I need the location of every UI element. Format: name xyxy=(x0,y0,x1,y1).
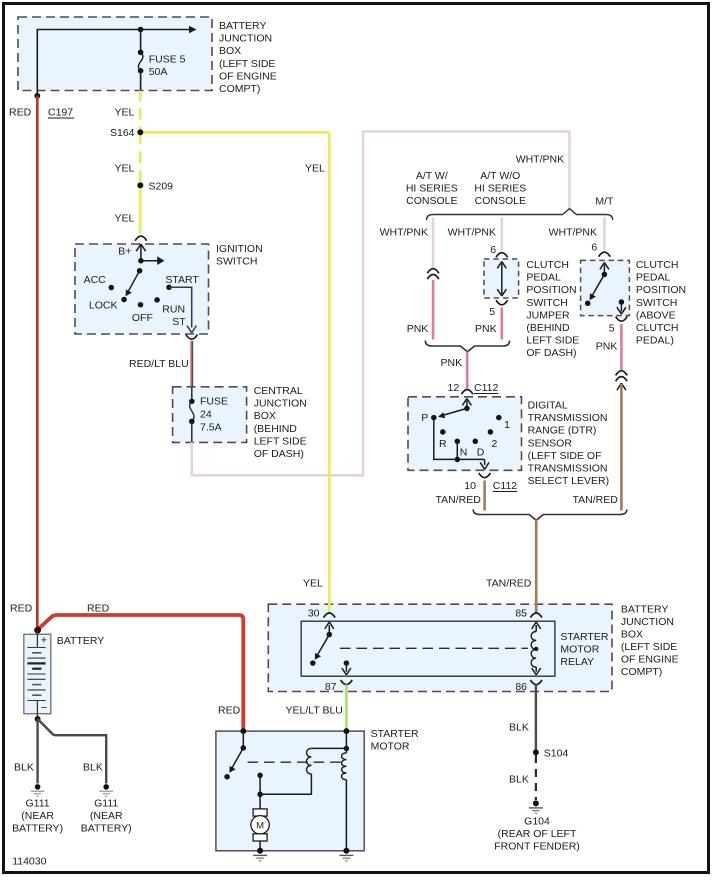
svg-text:PNK: PNK xyxy=(596,341,618,353)
svg-text:2: 2 xyxy=(492,438,498,450)
svg-text:85: 85 xyxy=(515,607,527,619)
node B+ xyxy=(138,258,144,264)
svg-text:114030: 114030 xyxy=(12,856,46,868)
wire TAN/RED into pin 85 xyxy=(535,603,538,613)
wire YEL dashed S164 to S209 xyxy=(139,132,142,185)
svg-text:RANGE (DTR): RANGE (DTR) xyxy=(528,425,597,437)
svg-text:IGNITION: IGNITION xyxy=(216,243,263,255)
connector entry B+ arc xyxy=(135,236,147,241)
node battery negative xyxy=(35,716,41,722)
wire BLK battery ground 2 xyxy=(38,719,107,784)
svg-text:WHT/PNK: WHT/PNK xyxy=(380,227,428,239)
svg-text:YEL: YEL xyxy=(303,578,323,590)
clutch pedal position switch box xyxy=(581,260,630,315)
svg-text:START: START xyxy=(165,274,199,286)
svg-text:A/T W/: A/T W/ xyxy=(416,170,448,182)
svg-text:C197: C197 xyxy=(48,107,73,119)
svg-text:1: 1 xyxy=(504,419,510,431)
svg-text:CONSOLE: CONSOLE xyxy=(475,195,526,207)
svg-text:ST: ST xyxy=(172,316,186,328)
svg-text:MOTOR: MOTOR xyxy=(560,643,599,655)
svg-text:(ABOVE: (ABOVE xyxy=(636,309,676,321)
svg-text:+: + xyxy=(41,635,47,647)
svg-text:OF DASH): OF DASH) xyxy=(254,448,304,460)
wire WHT/PNK CJB to top right xyxy=(192,132,570,476)
svg-text:COMPT): COMPT) xyxy=(621,666,662,678)
svg-text:RUN: RUN xyxy=(162,304,185,316)
svg-text:BLK: BLK xyxy=(509,722,529,734)
contact LOCK xyxy=(121,297,127,303)
svg-text:PEDAL): PEDAL) xyxy=(636,335,674,347)
contact R xyxy=(439,429,447,450)
label G111 b xyxy=(81,798,132,835)
svg-text:ACC: ACC xyxy=(84,274,107,286)
svg-text:SWITCH: SWITCH xyxy=(636,297,677,309)
svg-text:BATTERY): BATTERY) xyxy=(12,823,63,835)
svg-text:YEL/LT BLU: YEL/LT BLU xyxy=(286,705,343,717)
svg-text:BLK: BLK xyxy=(14,762,34,774)
motor M1 xyxy=(251,794,269,851)
brace top options xyxy=(427,209,613,220)
label clutch pedal position switch xyxy=(636,259,686,347)
label battery junction box 2 xyxy=(621,604,679,679)
svg-text:BOX: BOX xyxy=(219,45,241,57)
splice S164 dot overlay xyxy=(137,129,143,135)
contact 2 xyxy=(488,429,498,450)
label A/T W/ HI SERIES CONSOLE xyxy=(406,170,458,207)
svg-text:M: M xyxy=(256,820,264,831)
connector arc jumper top xyxy=(496,253,508,258)
svg-text:OF DASH): OF DASH) xyxy=(526,347,576,359)
svg-text:PNK: PNK xyxy=(441,357,463,369)
wire hold-in coil to ground xyxy=(345,780,347,851)
battery junction box 1 xyxy=(18,17,212,91)
svg-text:RELAY: RELAY xyxy=(560,656,594,668)
clutch pedal position switch jumper box xyxy=(484,259,519,298)
svg-text:JUNCTION: JUNCTION xyxy=(621,616,674,628)
clutch switch output contact xyxy=(617,299,626,314)
svg-text:A/T W/O: A/T W/O xyxy=(480,170,520,182)
svg-text:MOTOR: MOTOR xyxy=(371,740,410,752)
label A/T W/O HI SERIES CONSOLE xyxy=(474,170,526,207)
wire RED thick battery to relay feed xyxy=(38,615,244,730)
svg-text:M/T: M/T xyxy=(595,196,614,208)
clutch switch lever xyxy=(585,272,607,306)
wire PNK to C112 xyxy=(466,352,469,389)
pin 86 xyxy=(515,667,542,693)
svg-text:CENTRAL: CENTRAL xyxy=(254,385,303,397)
svg-text:PEDAL: PEDAL xyxy=(636,272,671,284)
svg-text:YEL: YEL xyxy=(305,163,325,175)
svg-text:JUNCTION: JUNCTION xyxy=(254,398,307,410)
wire TAN/RED from DTR xyxy=(483,481,486,511)
svg-text:(REAR OF LEFT: (REAR OF LEFT xyxy=(498,828,577,840)
splice S104 xyxy=(533,748,569,760)
contact D xyxy=(473,439,485,459)
svg-text:(NEAR: (NEAR xyxy=(21,810,54,822)
svg-text:SWITCH: SWITCH xyxy=(526,297,567,309)
svg-text:YEL: YEL xyxy=(115,107,135,119)
svg-text:HI SERIES: HI SERIES xyxy=(406,183,458,195)
splice S164 xyxy=(110,127,143,139)
svg-text:FRONT FENDER): FRONT FENDER) xyxy=(494,841,580,853)
svg-text:YEL: YEL xyxy=(115,213,135,225)
ground starter motor b xyxy=(339,848,353,861)
svg-text:6: 6 xyxy=(490,244,496,256)
svg-text:SWITCH: SWITCH xyxy=(216,256,257,268)
wire YEL dashed fuse to S164 xyxy=(139,91,142,133)
svg-text:JUMPER: JUMPER xyxy=(526,309,570,321)
svg-text:G111: G111 xyxy=(26,798,50,810)
connector arc jumper bottom xyxy=(496,300,508,305)
wire PNK branch1 xyxy=(432,280,435,340)
svg-text:24: 24 xyxy=(200,409,212,421)
svg-text:COMPT): COMPT) xyxy=(219,83,260,95)
wire YEL overlay at crossing xyxy=(328,467,331,483)
svg-text:OF ENGINE: OF ENGINE xyxy=(219,70,277,82)
svg-text:(BEHIND: (BEHIND xyxy=(254,423,298,435)
svg-text:PNK: PNK xyxy=(475,323,497,335)
splice S209 dot overlay xyxy=(137,182,143,188)
connector C197 xyxy=(48,107,74,119)
svg-text:50A: 50A xyxy=(149,66,168,78)
svg-text:WHT/PNK: WHT/PNK xyxy=(516,154,564,166)
starter link dashed xyxy=(248,761,346,763)
svg-text:YEL: YEL xyxy=(115,163,135,175)
relay switch lever xyxy=(310,632,332,666)
svg-text:HI SERIES: HI SERIES xyxy=(474,183,526,195)
wire coil top link xyxy=(311,747,346,749)
wire RED battery feed xyxy=(36,96,39,630)
node starter green input xyxy=(343,728,349,734)
svg-text:(LEFT SIDE: (LEFT SIDE xyxy=(621,641,677,653)
solenoid switch starter xyxy=(224,731,246,779)
DTR exit arrow xyxy=(480,459,489,469)
brace TAN/RED combine xyxy=(473,510,627,521)
label clutch pedal position switch jumper xyxy=(526,259,579,359)
node coil link xyxy=(534,647,538,651)
svg-text:PEDAL: PEDAL xyxy=(526,272,561,284)
wire YEL right vertical to relay xyxy=(328,132,331,613)
fuse F24 7.5A xyxy=(189,388,228,443)
wire bjb1 internal feed xyxy=(37,26,196,96)
node junction bjb1 xyxy=(138,27,144,33)
svg-text:BLK: BLK xyxy=(83,762,103,774)
wire RED/LT BLU ignition to CJB xyxy=(191,341,192,388)
contact 1 xyxy=(496,415,510,431)
contact OFF xyxy=(138,302,144,308)
svg-text:−: − xyxy=(41,702,47,714)
svg-text:S164: S164 xyxy=(110,127,135,139)
svg-text:LEFT SIDE: LEFT SIDE xyxy=(254,435,307,447)
ground G111 a xyxy=(31,784,45,796)
wire N tap xyxy=(456,441,458,459)
relay coil xyxy=(531,632,536,668)
contact RUN xyxy=(154,297,160,303)
svg-text:STARTER: STARTER xyxy=(560,631,608,643)
svg-text:POSITION: POSITION xyxy=(636,284,686,296)
pin 85 xyxy=(515,607,542,631)
svg-text:BOX: BOX xyxy=(621,629,643,641)
contact ACC xyxy=(109,285,115,291)
svg-text:S104: S104 xyxy=(544,748,569,760)
svg-text:POSITION: POSITION xyxy=(526,284,576,296)
wire TAN/RED to relay xyxy=(535,520,538,604)
wire P to output xyxy=(434,418,485,460)
svg-text:C112: C112 xyxy=(493,480,517,492)
pin 30 xyxy=(308,607,335,634)
svg-text:TRANSMISSION: TRANSMISSION xyxy=(528,412,608,424)
battery xyxy=(24,630,51,719)
svg-text:TAN/RED: TAN/RED xyxy=(573,494,619,506)
wire WHT/PNK branch 2 xyxy=(500,218,503,252)
svg-text:CONSOLE: CONSOLE xyxy=(406,195,457,207)
svg-text:5: 5 xyxy=(609,323,615,335)
connector C112 top xyxy=(461,382,498,394)
wire pull-in coil bottom link xyxy=(260,774,311,794)
label DTR sensor xyxy=(528,400,610,488)
svg-text:86: 86 xyxy=(515,681,527,693)
inline connector branch1 xyxy=(427,269,439,279)
svg-text:LOCK: LOCK xyxy=(89,300,118,312)
wire green input down xyxy=(345,731,347,753)
node C197 junction dot xyxy=(34,93,40,99)
fuse F5 50A xyxy=(138,30,186,91)
wire WHT/PNK branch 3 xyxy=(603,218,606,251)
svg-text:OF ENGINE: OF ENGINE xyxy=(621,654,679,666)
DTR entry arrow xyxy=(462,399,471,409)
battery junction box 2 xyxy=(268,604,612,691)
label G111 a xyxy=(12,798,63,835)
svg-text:BLK: BLK xyxy=(509,774,529,786)
node battery positive xyxy=(34,627,41,634)
connector C112 bottom xyxy=(464,473,517,492)
svg-text:BOX: BOX xyxy=(254,410,276,422)
starter contact node xyxy=(257,773,263,779)
svg-text:RED: RED xyxy=(87,602,110,614)
starter motor relay box xyxy=(301,621,555,676)
svg-text:RED: RED xyxy=(218,705,241,717)
label ignition switch xyxy=(216,243,263,268)
brace PNK combine xyxy=(425,341,509,352)
svg-text:OFF: OFF xyxy=(132,312,153,324)
wire BLK battery ground 1 xyxy=(36,719,38,784)
svg-text:FUSE 5: FUSE 5 xyxy=(149,54,186,66)
node N junction xyxy=(455,457,461,463)
label battery junction box 1 xyxy=(219,20,277,95)
svg-text:BATTERY: BATTERY xyxy=(57,635,104,647)
connector arc clutch switch top xyxy=(599,252,611,257)
wire TAN/RED branch3 xyxy=(620,384,623,511)
svg-text:SENSOR: SENSOR xyxy=(528,437,573,449)
svg-text:30: 30 xyxy=(308,607,320,619)
contact N xyxy=(455,439,468,459)
svg-text:7.5A: 7.5A xyxy=(200,422,222,434)
svg-text:TRANSMISSION: TRANSMISSION xyxy=(528,463,608,475)
svg-text:LEFT SIDE: LEFT SIDE xyxy=(526,335,579,347)
svg-text:6: 6 xyxy=(591,242,597,254)
contact START xyxy=(166,285,172,291)
node motor junction xyxy=(257,792,263,798)
svg-text:(BEHIND: (BEHIND xyxy=(526,322,570,334)
svg-text:BATTERY): BATTERY) xyxy=(81,823,132,835)
pull-in coil xyxy=(307,748,312,774)
svg-text:RED: RED xyxy=(10,602,33,614)
wire YEL into pin 30 xyxy=(328,603,331,614)
wire WHT/PNK branch 1 xyxy=(432,218,435,270)
svg-text:WHT/PNK: WHT/PNK xyxy=(448,227,496,239)
wire PNK branch2 xyxy=(500,308,503,340)
svg-text:P: P xyxy=(421,412,428,424)
svg-text:(NEAR: (NEAR xyxy=(90,810,123,822)
svg-text:PNK: PNK xyxy=(407,323,429,335)
svg-text:CLUTCH: CLUTCH xyxy=(636,322,679,334)
svg-text:R: R xyxy=(439,438,447,450)
inline connector branch3 xyxy=(616,371,628,390)
svg-text:G111: G111 xyxy=(94,798,118,810)
svg-text:D: D xyxy=(477,447,485,459)
label G104 xyxy=(494,816,580,853)
connector ST exit arc xyxy=(186,335,198,340)
B+ entry arrow xyxy=(136,244,145,261)
svg-text:TAN/RED: TAN/RED xyxy=(436,494,482,506)
node coil top xyxy=(344,746,350,752)
node starter red input xyxy=(240,728,246,734)
svg-text:12: 12 xyxy=(448,382,460,394)
pin 87 xyxy=(325,660,352,692)
svg-text:N: N xyxy=(460,447,468,459)
label starter motor xyxy=(371,728,419,753)
svg-text:JUNCTION: JUNCTION xyxy=(219,33,272,45)
jumper double arrow xyxy=(497,262,506,297)
DTR selector lever xyxy=(438,406,470,419)
splice S209 xyxy=(137,181,173,193)
contact P xyxy=(421,412,436,424)
svg-text:(LEFT SIDE: (LEFT SIDE xyxy=(219,58,275,70)
DTR sensor box xyxy=(408,397,522,471)
wire contact to motor node xyxy=(259,775,261,794)
ignition feed arrow right xyxy=(141,256,165,265)
svg-text:SELECT LEVER): SELECT LEVER) xyxy=(528,475,610,487)
wire YEL/LT BLU pin87 to starter xyxy=(345,685,348,732)
wire YEL S209 to ignition xyxy=(139,185,142,233)
clutch switch entry arrow xyxy=(600,263,609,275)
svg-text:WHT/PNK: WHT/PNK xyxy=(549,227,597,239)
ground G104 xyxy=(529,800,543,813)
svg-text:B+: B+ xyxy=(118,246,131,258)
svg-text:G104: G104 xyxy=(524,816,550,828)
svg-text:S209: S209 xyxy=(149,181,174,193)
relay link dashed xyxy=(340,647,528,649)
wire PNK branch3 xyxy=(620,324,623,372)
ground starter motor a xyxy=(253,848,267,861)
svg-text:CLUTCH: CLUTCH xyxy=(636,259,679,271)
svg-text:DIGITAL: DIGITAL xyxy=(528,400,568,412)
svg-text:10: 10 xyxy=(464,480,476,492)
wire BLK pin86 to S104 xyxy=(535,685,537,751)
starter motor box xyxy=(216,731,364,851)
svg-text:TAN/RED: TAN/RED xyxy=(486,578,532,590)
label starter motor relay xyxy=(560,631,608,668)
wire YEL S164 to right xyxy=(140,131,329,134)
ignition switch box xyxy=(75,244,209,334)
svg-text:BATTERY: BATTERY xyxy=(621,604,668,616)
svg-text:FUSE: FUSE xyxy=(200,396,228,408)
svg-text:RED: RED xyxy=(9,107,32,119)
svg-text:CLUTCH: CLUTCH xyxy=(526,259,569,271)
svg-text:(LEFT SIDE OF: (LEFT SIDE OF xyxy=(528,450,602,462)
svg-text:C112: C112 xyxy=(474,382,498,394)
wire START output xyxy=(169,287,196,333)
svg-text:BATTERY: BATTERY xyxy=(219,20,266,32)
wire BLK dashed S104 to G104 xyxy=(535,755,537,800)
svg-text:STARTER: STARTER xyxy=(371,728,419,740)
ground G111 b xyxy=(99,784,113,796)
svg-text:RED/LT BLU: RED/LT BLU xyxy=(129,358,189,370)
svg-text:87: 87 xyxy=(325,681,337,693)
svg-text:5: 5 xyxy=(489,306,495,318)
connector arc clutch switch bottom xyxy=(616,317,628,322)
label central junction box xyxy=(254,385,307,460)
switch lever ignition xyxy=(126,268,143,296)
central junction box xyxy=(173,387,247,443)
hold-in coil xyxy=(342,753,347,780)
